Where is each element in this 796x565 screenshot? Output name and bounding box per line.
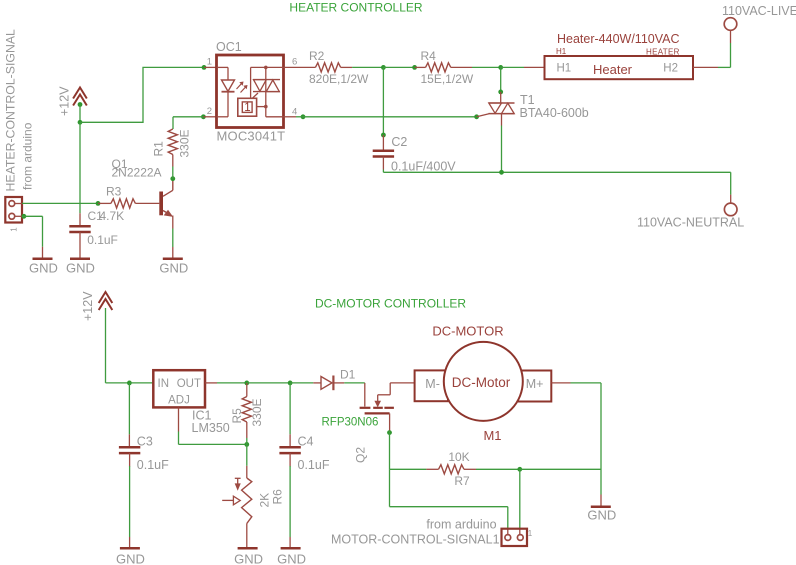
net label from arduino: [21, 122, 35, 190]
wire J1 pin1 to GND: [22, 214, 43, 247]
node junction T1 gate top: [498, 90, 503, 95]
OC1 zero-cross digit 1: [244, 102, 250, 114]
OC1 LED anode line: [217, 67, 229, 80]
wire OUT to C4 node: [247, 382, 290, 384]
label H2 pin: [663, 63, 678, 75]
wire C2 top: [382, 67, 384, 135]
wire T1 top: [500, 67, 502, 92]
ground GND4 under C3: [116, 548, 145, 565]
svg-text:0.1uF/400V: 0.1uF/400V: [391, 160, 456, 174]
ground GND3 under Q1: [159, 259, 188, 276]
svg-text:H2: H2: [663, 63, 678, 75]
label R3 value 4.7K: [100, 209, 125, 223]
OC1 zc to vertical line: [257, 106, 266, 108]
svg-text:1: 1: [10, 227, 19, 232]
OC1 LED diode: [222, 80, 235, 92]
svg-text:from arduino: from arduino: [21, 122, 35, 190]
svg-text:4: 4: [292, 107, 297, 118]
wire M+ to GND: [600, 383, 602, 507]
svg-text:from arduino: from arduino: [426, 517, 496, 531]
label R3: [106, 185, 122, 199]
svg-text:R4: R4: [421, 49, 437, 63]
svg-text:D1: D1: [340, 368, 356, 382]
resistor R4 15E: [415, 63, 472, 72]
label DC-Motor: [452, 375, 511, 390]
svg-text:DC-MOTOR CONTROLLER: DC-MOTOR CONTROLLER: [315, 297, 466, 311]
OC1 pin4 internal line: [266, 116, 284, 118]
resistor R5 330E: [242, 383, 251, 445]
connector J1 pin 1 label: [10, 227, 19, 232]
capacitor C1: [69, 213, 90, 259]
heater HEATER1 box: [545, 56, 694, 79]
svg-text:1: 1: [528, 529, 533, 538]
node junction C4 top: [288, 381, 293, 386]
wire D1 to Q2 gate: [344, 382, 365, 384]
OC1 triac bottom rail: [253, 91, 280, 93]
svg-text:R6: R6: [271, 489, 285, 505]
svg-text:Heater: Heater: [593, 62, 633, 77]
label C2: [391, 135, 407, 149]
label R2 value 820E,1/2W: [309, 72, 369, 86]
svg-text:H1: H1: [557, 63, 572, 75]
wire neutral run: [383, 170, 730, 173]
label C4: [298, 434, 314, 448]
wire heater H2 to live: [718, 43, 731, 67]
OC1 triac top rail: [253, 79, 280, 81]
supply +12V arrow 1: [58, 86, 87, 116]
label M+: [526, 377, 544, 391]
pin number 6: [292, 57, 297, 68]
wire J2 pin stub left: [507, 529, 509, 535]
svg-text:M+: M+: [526, 377, 544, 391]
svg-text:RFP30N06: RFP30N06: [322, 417, 379, 429]
svg-text:C4: C4: [298, 434, 314, 448]
svg-text:GND: GND: [29, 261, 58, 276]
motor M1 M- box: [415, 370, 448, 401]
label IC1: [192, 409, 212, 423]
svg-text:4.7K: 4.7K: [100, 209, 125, 223]
node junction T1 gate: [474, 114, 479, 119]
net label from arduino 2: [426, 517, 496, 531]
wire neutral down: [730, 172, 732, 203]
OC1 triac triangles: [254, 80, 280, 92]
wire C2 node to R4: [383, 66, 414, 68]
wire R2 to C2 node: [352, 66, 383, 68]
supply +12V arrow 2: [81, 291, 112, 321]
svg-text:1: 1: [207, 57, 212, 68]
svg-text:15E,1/2W: 15E,1/2W: [421, 72, 474, 86]
svg-text:ADJ: ADJ: [168, 395, 190, 407]
svg-text:R2: R2: [309, 49, 325, 63]
svg-text:6: 6: [292, 57, 297, 68]
svg-text:OC1: OC1: [216, 40, 242, 54]
label Q2: [354, 447, 368, 463]
label Heater-440W/110VAC: [557, 32, 680, 46]
svg-text:Q2: Q2: [354, 447, 368, 463]
label OC1 value MOC3041T: [217, 129, 286, 144]
title DC-MOTOR CONTROLLER: [315, 297, 466, 311]
pin number 1: [207, 57, 212, 68]
svg-text:MOC3041T: MOC3041T: [217, 129, 286, 144]
node junction T1 top: [498, 65, 503, 70]
svg-text:R5: R5: [230, 408, 244, 424]
label Q1: [112, 157, 128, 171]
pin number 2: [207, 106, 212, 117]
label R5: [230, 408, 244, 424]
svg-text:0.1uF: 0.1uF: [298, 458, 330, 472]
label T1 value BTA40-600b: [520, 106, 589, 120]
capacitor C3: [119, 434, 140, 466]
svg-text:GND: GND: [234, 551, 263, 565]
svg-text:C2: C2: [391, 135, 407, 149]
svg-text:BTA40-600b: BTA40-600b: [520, 106, 589, 120]
transistor Q2 RFP30N06: [360, 383, 394, 431]
label R6 value 2K: [258, 493, 272, 508]
node 110VAC-LIVE pad: [724, 18, 737, 31]
svg-text:R7: R7: [454, 474, 470, 488]
label HEATER small: [646, 48, 680, 57]
label R1: [152, 141, 166, 157]
wire pin stub OC1 pin1: [204, 66, 217, 68]
node junction R7 right: [517, 467, 522, 472]
wire pin4 stub: [284, 116, 304, 118]
svg-text:OUT: OUT: [177, 378, 201, 390]
R6 wiper arrow: [222, 496, 240, 505]
svg-text:330E: 330E: [178, 129, 192, 157]
diode D1: [313, 376, 344, 391]
pin number 4: [292, 107, 297, 118]
label C2 value 0.1uF/400V: [391, 160, 456, 174]
svg-text:820E,1/2W: 820E,1/2W: [309, 72, 369, 86]
motor M1 M+ box: [518, 371, 551, 402]
wire to IC1 IN: [129, 382, 153, 384]
wire Q2 drain to motor: [390, 382, 414, 384]
node pin6 internal dot: [264, 66, 268, 70]
label C3: [137, 434, 153, 448]
svg-text:10K: 10K: [448, 450, 469, 464]
node junction R4 left: [412, 65, 417, 70]
svg-text:+12V: +12V: [58, 86, 72, 116]
label H1 small: [556, 47, 567, 56]
label R7: [454, 474, 470, 488]
svg-text:HEATER CONTROLLER: HEATER CONTROLLER: [289, 1, 422, 15]
node junction C3 top: [127, 381, 132, 386]
svg-text:H1: H1: [556, 47, 567, 56]
wire OC1 pin2 to R1: [173, 114, 206, 129]
svg-text:110VAC-LIVE: 110VAC-LIVE: [722, 4, 796, 18]
label Q2 value RFP30N06: [322, 417, 379, 429]
node junction R5 top: [244, 381, 249, 386]
connector J2 MOTOR-CONTROL-SIGNAL1: [502, 529, 528, 546]
label H1 pin: [557, 63, 572, 75]
svg-text:DC-MOTOR: DC-MOTOR: [432, 324, 503, 339]
label ADJ: [168, 395, 190, 407]
label OUT: [177, 378, 201, 390]
node junction neutral T1: [499, 170, 504, 175]
resistor R3: [98, 199, 159, 208]
wire +12V rail to OC1 pin1: [80, 67, 204, 122]
capacitor C4: [279, 434, 300, 466]
node junction at R3 left: [96, 201, 101, 206]
capacitor C2: [373, 135, 394, 170]
label R4 value 15E,1/2W: [421, 72, 474, 86]
node dot below +12V 1: [78, 102, 83, 107]
OC1 zero-cross box: [238, 98, 257, 116]
wire C4 to GND: [289, 466, 291, 548]
svg-text:M1: M1: [483, 428, 501, 443]
OC1 LED cathode line: [217, 92, 229, 117]
svg-text:GND: GND: [587, 508, 616, 523]
net label HEATER-CONTROL-SIGNAL: [4, 29, 18, 192]
label M1: [483, 428, 501, 443]
svg-text:330E: 330E: [250, 398, 264, 426]
OC1 light arrow 2: [241, 86, 247, 93]
svg-text:R3: R3: [106, 185, 122, 199]
label M-: [425, 377, 440, 391]
svg-text:DC-Motor: DC-Motor: [452, 375, 511, 390]
label C4 value 0.1uF: [298, 458, 330, 472]
wire R4 to T1 node: [472, 66, 501, 68]
OC1 light arrow 1: [237, 82, 243, 89]
wire live pin stub: [730, 30, 732, 43]
label C3 value 0.1uF: [137, 458, 169, 472]
node junction C2 top: [381, 65, 386, 70]
resistor R2 820E: [284, 63, 353, 72]
wire R6 top: [246, 444, 248, 465]
svg-text:2N2222A: 2N2222A: [112, 166, 162, 180]
connector J1 HEATER-CONTROL-SIGNAL: [5, 197, 22, 223]
wire R7 junction to J2: [519, 469, 521, 534]
wire IC1 ADJ down: [179, 407, 247, 444]
node 110VAC-NEUTRAL pad: [724, 203, 737, 216]
potentiometer R6 2K: [242, 466, 252, 548]
wire +12V 2 down: [106, 308, 130, 383]
wire R7 to junction: [476, 468, 520, 470]
node dot Q1 collector: [170, 176, 175, 181]
svg-text:1: 1: [244, 102, 250, 114]
ground GND7: [587, 507, 616, 523]
net label 110VAC-LIVE: [722, 4, 796, 18]
wire Q1 emitter to GND: [172, 229, 174, 259]
wire +12V down: [79, 105, 81, 123]
wire IC1 OUT: [205, 382, 247, 384]
connector J2 pin 1 label: [528, 529, 533, 538]
label OC1: [216, 40, 242, 54]
label R1 value 330E: [178, 129, 192, 157]
label IN: [158, 378, 170, 390]
ground GND5 under R6: [234, 548, 263, 565]
svg-text:110VAC-NEUTRAL: 110VAC-NEUTRAL: [637, 216, 744, 230]
label DC-MOTOR: [432, 324, 503, 339]
OC1 internal vertical: [265, 67, 267, 116]
wire source to R7: [390, 468, 427, 470]
transistor Q1 2N2222A: [159, 179, 173, 229]
wire T1 bottom: [501, 126, 503, 173]
R6 adjust arrow: [235, 478, 241, 489]
svg-text:R1: R1: [152, 141, 166, 157]
wire C3 down: [128, 383, 130, 434]
svg-text:MOTOR-CONTROL-SIGNAL1: MOTOR-CONTROL-SIGNAL1: [331, 533, 500, 547]
node junction at OC1 pin1: [202, 65, 207, 70]
wire C3 to GND: [129, 466, 131, 548]
svg-text:M-: M-: [425, 377, 440, 391]
op-amp U1 OC1 box: [217, 55, 284, 128]
net label 110VAC-NEUTRAL: [637, 216, 744, 230]
OC1 zc box vertical: [250, 67, 252, 98]
label Q1 value 2N2222A: [112, 166, 162, 180]
resistor R7 10K: [426, 465, 476, 474]
wire motor M+ out: [551, 382, 601, 384]
wire C4 node to D1: [290, 382, 313, 384]
svg-text:HEATER: HEATER: [646, 48, 680, 57]
svg-text:GND: GND: [116, 551, 145, 565]
motor M1 circle: [444, 342, 523, 421]
label R7 value 10K: [448, 450, 469, 464]
node zc dot: [264, 105, 268, 109]
OC1 pin6 internal line: [251, 66, 284, 68]
ground GND2 under C1: [66, 259, 95, 276]
svg-text:2K: 2K: [258, 493, 272, 508]
wire T1 gate stub: [477, 114, 489, 117]
wire C4 down: [289, 383, 291, 434]
triac T1 BTA40-600b: [489, 92, 515, 126]
regulator IC1 box: [153, 370, 205, 407]
svg-text:0.1uF: 0.1uF: [87, 233, 118, 247]
node junction C2: [381, 133, 386, 138]
label R4: [421, 49, 437, 63]
wire junction to M+ GND line: [520, 468, 601, 470]
wire +12V down to C1: [79, 122, 81, 213]
wire Q1 collector to R1: [172, 167, 174, 179]
wire signal J1 to R3: [22, 202, 98, 204]
label C1: [88, 209, 104, 223]
wire OC1 pin4 to T1 gate: [301, 114, 477, 119]
svg-text:GND: GND: [277, 551, 306, 565]
ground GND6 under C4: [277, 548, 306, 565]
svg-text:C3: C3: [137, 434, 153, 448]
OC1 gate diagonal: [252, 93, 258, 98]
svg-text:T1: T1: [520, 93, 535, 107]
label C1 value 0.1uF: [87, 233, 118, 247]
label T1: [520, 93, 535, 107]
wire heater H2 stub: [693, 66, 718, 68]
label IC1 value LM350: [192, 421, 230, 435]
svg-text:IN: IN: [158, 378, 170, 390]
wire T1 node to heater: [501, 66, 545, 68]
svg-text:LM350: LM350: [192, 421, 230, 435]
title HEATER CONTROLLER: [289, 1, 422, 15]
svg-text:0.1uF: 0.1uF: [137, 458, 169, 472]
svg-text:GND: GND: [66, 261, 95, 276]
label R5 value 330E: [250, 398, 264, 426]
wire Q2 source to J2: [390, 469, 508, 529]
node junction ADJ R5 R6: [244, 442, 249, 447]
net label MOTOR-CONTROL-SIGNAL1: [331, 533, 500, 547]
node junction +12V rail: [78, 120, 83, 125]
node junction Q2 source: [387, 430, 392, 435]
label R2: [309, 49, 325, 63]
label D1: [340, 368, 356, 382]
label Heater: [593, 62, 633, 77]
wire pin stub OC1 pin2: [203, 116, 216, 118]
resistor R1 330E: [168, 129, 177, 167]
svg-text:Heater-440W/110VAC: Heater-440W/110VAC: [557, 32, 680, 46]
ground GND1: [29, 247, 58, 276]
wire Q2 source down: [389, 431, 391, 469]
svg-text:HEATER-CONTROL-SIGNAL: HEATER-CONTROL-SIGNAL: [4, 29, 18, 192]
label R6: [271, 489, 285, 505]
svg-text:2: 2: [207, 106, 212, 117]
svg-text:+12V: +12V: [81, 291, 95, 321]
svg-text:GND: GND: [159, 261, 188, 276]
